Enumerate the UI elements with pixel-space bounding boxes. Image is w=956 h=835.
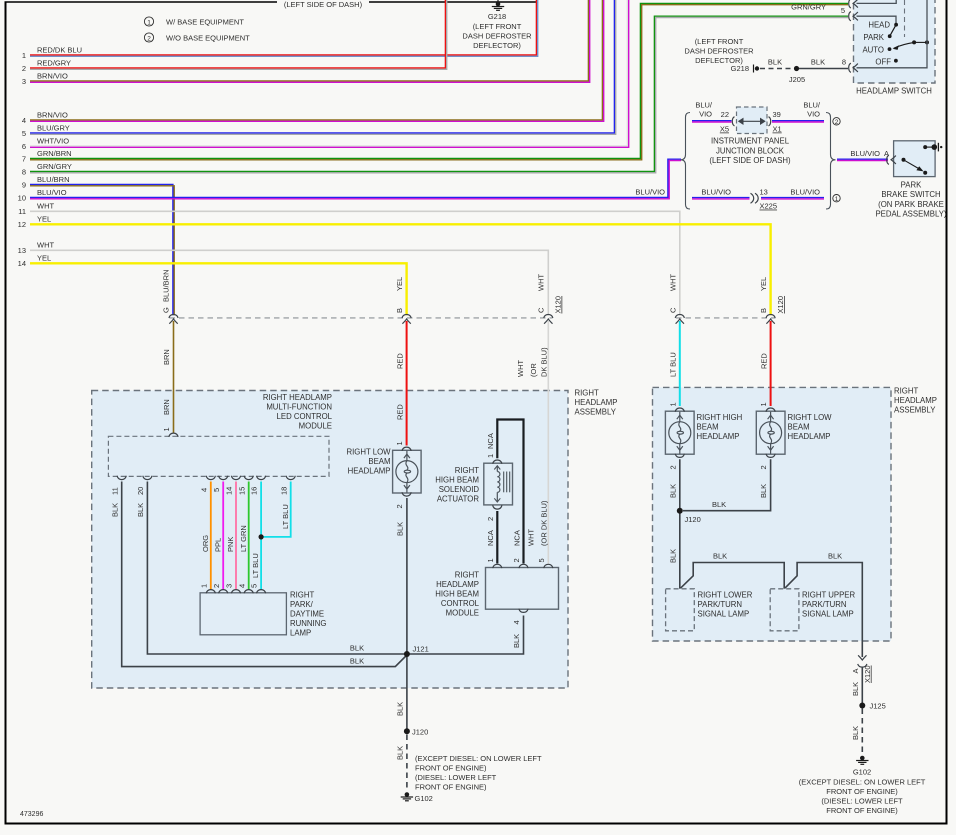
note circle 1 on bottom branch xyxy=(833,195,840,203)
svg-text:X1: X1 xyxy=(773,125,782,134)
connector X1 out of junction block xyxy=(769,110,782,134)
park brake switch box xyxy=(875,141,946,219)
svg-text:1: 1 xyxy=(486,558,495,562)
splice J121 xyxy=(404,645,429,658)
svg-text:RED: RED xyxy=(396,353,405,369)
right high beam headlamp box xyxy=(665,411,742,454)
cropped component bottom edge (left side of dash box) xyxy=(5,0,538,8)
svg-text:1: 1 xyxy=(668,402,677,406)
legend note 2: W/O BASE EQUIPMENT xyxy=(144,33,250,43)
svg-text:BLK: BLK xyxy=(759,484,768,498)
control module pin 1 xyxy=(486,558,502,568)
svg-text:6: 6 xyxy=(22,142,26,151)
connector X120 left (dashed boundary) xyxy=(170,296,563,318)
svg-text:RIGHT: RIGHT xyxy=(894,387,918,396)
junction block internal dashed box with bus bar xyxy=(737,107,768,134)
svg-text:YEL: YEL xyxy=(37,254,51,263)
svg-text:C: C xyxy=(537,307,546,313)
svg-text:HIGH BEAM: HIGH BEAM xyxy=(435,476,479,485)
svg-text:BEAM: BEAM xyxy=(368,457,390,466)
headlamp switch pin 5 internal line to HEAD contact xyxy=(857,16,897,24)
svg-text:5: 5 xyxy=(841,6,845,15)
svg-text:BLU/VIO: BLU/VIO xyxy=(635,188,665,197)
svg-text:BLU/: BLU/ xyxy=(803,101,821,110)
wire LT GRN pin 15 to lamp pin 4 xyxy=(239,482,249,590)
wire BLK dashed J125 to ground G102 (right) xyxy=(851,709,863,756)
svg-text:BRN/VIO: BRN/VIO xyxy=(37,72,68,81)
svg-text:NCA: NCA xyxy=(486,530,495,546)
svg-text:9: 9 xyxy=(22,181,26,190)
svg-text:BLK: BLK xyxy=(350,644,364,653)
ground G102 (left) xyxy=(401,754,542,803)
svg-text:A: A xyxy=(851,668,860,673)
svg-text:BLK: BLK xyxy=(396,702,405,716)
X120 pin B connector (left) xyxy=(395,277,411,324)
svg-text:BLU/BRN: BLU/BRN xyxy=(162,269,171,302)
svg-text:5: 5 xyxy=(22,129,26,138)
wire ORG pin 4 to lamp pin 1 xyxy=(201,482,211,590)
svg-text:2: 2 xyxy=(759,465,768,469)
svg-text:1: 1 xyxy=(22,51,26,60)
wire BLU/VIO brace to X5 xyxy=(692,101,732,123)
svg-text:BLK: BLK xyxy=(350,657,364,666)
wire BLK pin 11 to J121 lower line xyxy=(110,482,407,667)
svg-text:RIGHT HEADLAMP: RIGHT HEADLAMP xyxy=(263,393,332,402)
wire BLU/VIO brace to X225 xyxy=(692,187,750,199)
svg-text:X5: X5 xyxy=(720,125,729,134)
svg-text:8: 8 xyxy=(22,168,26,177)
control module pin 4 (bottom) xyxy=(512,609,528,648)
svg-text:BLU/VIO: BLU/VIO xyxy=(790,187,820,196)
svg-text:ORG: ORG xyxy=(201,535,210,552)
wire BLK dashed G218 to J205 xyxy=(760,58,794,69)
headlamp switch top pin internal line xyxy=(857,0,897,3)
svg-text:FRONT OF ENGINE): FRONT OF ENGINE) xyxy=(415,783,487,792)
svg-text:3: 3 xyxy=(22,77,26,86)
left brace for junction block branches xyxy=(681,113,691,210)
svg-text:AUTO: AUTO xyxy=(862,46,884,55)
svg-text:RIGHT: RIGHT xyxy=(455,571,479,580)
svg-text:INSTRUMENT PANEL: INSTRUMENT PANEL xyxy=(711,137,790,146)
LED module pin 1 (top) xyxy=(162,427,178,437)
svg-text:13: 13 xyxy=(760,187,768,196)
splice J120 (right assembly) xyxy=(677,508,701,524)
wire BLK low beam pin 2 to J120 xyxy=(683,459,771,510)
wire 6 WHT/VIO xyxy=(22,0,629,151)
svg-text:HIGH BEAM: HIGH BEAM xyxy=(435,590,479,599)
note circle 2 on top branch xyxy=(833,118,840,126)
svg-text:PARK: PARK xyxy=(901,181,922,190)
svg-text:(DIESEL: LOWER LEFT: (DIESEL: LOWER LEFT xyxy=(415,773,497,782)
svg-text:GRN/BRN: GRN/BRN xyxy=(37,149,72,158)
wire BRN X120-G to LED module pin 1 xyxy=(162,321,174,433)
svg-text:X225: X225 xyxy=(760,202,778,211)
svg-text:J125: J125 xyxy=(870,702,886,711)
wire PPL pin 5 to lamp pin 2 xyxy=(213,482,223,590)
svg-text:SIGNAL LAMP: SIGNAL LAMP xyxy=(698,610,750,619)
svg-text:7: 7 xyxy=(22,155,26,164)
wire 10 BLU/VIO xyxy=(18,159,681,202)
headlamp switch top pin connector xyxy=(849,0,858,8)
svg-text:4: 4 xyxy=(512,620,521,624)
svg-text:11: 11 xyxy=(18,207,26,216)
svg-text:15: 15 xyxy=(237,487,246,495)
svg-text:4: 4 xyxy=(199,488,208,492)
svg-text:DK BLU): DK BLU) xyxy=(540,347,549,377)
PARK contact xyxy=(863,33,891,42)
svg-text:RIGHT: RIGHT xyxy=(575,389,599,398)
svg-text:BLK: BLK xyxy=(828,552,842,561)
low beam lamp pin 2 xyxy=(395,492,411,508)
X120 pin C connector (right) xyxy=(669,274,685,324)
right high beam solenoid actuator box xyxy=(484,463,513,505)
svg-text:PPL: PPL xyxy=(213,538,222,552)
svg-text:BLK: BLK xyxy=(851,726,860,740)
right headlamp assembly box (right drawing) xyxy=(653,387,937,642)
svg-text:BLK: BLK xyxy=(768,58,782,67)
svg-text:LED CONTROL: LED CONTROL xyxy=(277,412,333,421)
svg-text:LT BLU: LT BLU xyxy=(669,352,678,377)
svg-text:SIGNAL LAMP: SIGNAL LAMP xyxy=(802,610,854,619)
svg-text:(EXCEPT DIESEL: ON LOWER LEFT: (EXCEPT DIESEL: ON LOWER LEFT xyxy=(415,754,542,763)
wire BLK branch to upper park/turn lamp and ground trunk xyxy=(785,552,862,658)
svg-text:1: 1 xyxy=(395,441,404,445)
high beam lamp pin 2 xyxy=(668,454,684,470)
svg-text:BLK: BLK xyxy=(668,549,677,563)
svg-text:ASSEMBLY: ASSEMBLY xyxy=(894,406,936,415)
splice J120 (bottom left drop) xyxy=(404,728,428,737)
svg-text:PARK/TURN: PARK/TURN xyxy=(698,600,742,609)
control module pin 5 xyxy=(537,558,553,568)
svg-text:BLK: BLK xyxy=(712,500,726,509)
BLK label below J120 xyxy=(668,549,677,563)
svg-text:1: 1 xyxy=(147,19,151,26)
wire 12 YEL xyxy=(18,215,771,316)
wire BLU/VIO X1 to right brace xyxy=(772,101,824,123)
AUTO contact xyxy=(862,46,891,55)
svg-text:1: 1 xyxy=(162,427,171,431)
svg-text:2: 2 xyxy=(512,558,521,562)
svg-text:BLU/VIO: BLU/VIO xyxy=(37,188,67,197)
svg-text:3: 3 xyxy=(225,584,234,588)
svg-text:WHT: WHT xyxy=(516,360,525,377)
svg-text:VIO: VIO xyxy=(807,110,820,119)
svg-text:39: 39 xyxy=(773,110,781,119)
label GRN/GRY pin 5 xyxy=(791,3,845,16)
connector X120 right (dashed boundary) xyxy=(676,296,785,318)
wire BLU/VIO X225 to right brace xyxy=(761,187,824,199)
park lamp pin 1 xyxy=(199,584,215,594)
svg-text:(LEFT SIDE OF DASH): (LEFT SIDE OF DASH) xyxy=(709,156,791,165)
svg-text:14: 14 xyxy=(225,487,234,495)
svg-text:2: 2 xyxy=(486,517,495,521)
svg-text:FRONT OF ENGINE): FRONT OF ENGINE) xyxy=(826,787,898,796)
svg-text:16: 16 xyxy=(250,487,259,495)
svg-text:RIGHT LOW: RIGHT LOW xyxy=(346,448,391,457)
svg-text:RUNNING: RUNNING xyxy=(290,619,326,628)
splice J205 xyxy=(789,66,805,84)
svg-text:WHT: WHT xyxy=(669,274,678,291)
svg-text:(ON PARK BRAKE: (ON PARK BRAKE xyxy=(878,200,944,209)
svg-text:G218: G218 xyxy=(731,64,749,73)
wire 11 WHT xyxy=(18,202,680,316)
svg-text:PNK: PNK xyxy=(226,537,235,552)
park lamp pin 3 xyxy=(225,584,241,594)
svg-text:LT GRN: LT GRN xyxy=(239,525,248,552)
svg-text:RIGHT UPPER: RIGHT UPPER xyxy=(802,591,856,600)
wire BLK low beam pin 2 to J120 splice (left) xyxy=(396,498,407,731)
svg-text:X120: X120 xyxy=(776,296,785,314)
wire NCA solenoid pin 1 loop to control module pin 2 xyxy=(497,420,523,564)
svg-text:RED/GRY: RED/GRY xyxy=(37,59,71,68)
right lower park/turn signal lamp (dashed box) xyxy=(666,589,753,631)
svg-text:YEL: YEL xyxy=(759,277,768,291)
svg-text:NCA: NCA xyxy=(513,530,522,546)
page border right xyxy=(946,0,948,824)
svg-text:10: 10 xyxy=(18,194,26,203)
svg-text:HEAD: HEAD xyxy=(868,20,890,29)
LED module pin 5 (bottom) xyxy=(212,476,228,492)
svg-text:RIGHT LOWER: RIGHT LOWER xyxy=(698,591,753,600)
LED module pin 20 (bottom) xyxy=(136,476,152,495)
svg-text:(EXCEPT DIESEL: ON LOWER LEFT: (EXCEPT DIESEL: ON LOWER LEFT xyxy=(799,778,926,787)
svg-text:RED: RED xyxy=(396,404,405,420)
svg-text:5: 5 xyxy=(212,488,221,492)
svg-text:2: 2 xyxy=(395,504,404,508)
svg-text:11: 11 xyxy=(110,487,119,495)
LED module pin 18 (bottom) xyxy=(279,476,295,495)
wire 13 WHT xyxy=(18,241,549,316)
LED control module label xyxy=(263,393,333,431)
park lamp pin 5 xyxy=(250,584,266,594)
svg-text:2: 2 xyxy=(147,35,151,42)
headlamp switch pin 5 connector xyxy=(849,12,858,21)
svg-text:OFF: OFF xyxy=(875,57,891,66)
wire 5 BLU/GRY xyxy=(22,0,616,138)
svg-text:SOLENOID: SOLENOID xyxy=(439,485,480,494)
svg-text:BLK: BLK xyxy=(110,503,119,517)
splice dot pins 16/18 xyxy=(259,534,264,539)
wire LT BLU X120-C to high beam headlamp xyxy=(669,321,680,406)
svg-text:RIGHT: RIGHT xyxy=(290,591,314,600)
svg-text:W/ BASE EQUIPMENT: W/ BASE EQUIPMENT xyxy=(166,18,244,27)
svg-text:BRAKE SWITCH: BRAKE SWITCH xyxy=(881,190,940,199)
svg-text:BLK: BLK xyxy=(713,552,727,561)
svg-text:22: 22 xyxy=(721,110,729,119)
svg-text:RED: RED xyxy=(760,353,769,369)
svg-text:(LEFT SIDE OF DASH): (LEFT SIDE OF DASH) xyxy=(284,0,363,9)
wire BLK J205 to headlamp switch pin 8 xyxy=(799,58,848,69)
svg-text:(LEFT FRONT: (LEFT FRONT xyxy=(473,22,522,31)
right headlamp high beam control module box xyxy=(486,568,559,610)
svg-text:YEL: YEL xyxy=(395,277,404,291)
solenoid pin 2 (bottom) xyxy=(486,505,502,546)
low beam lamp pin 1 (right assembly) xyxy=(759,402,775,411)
svg-text:BLK: BLK xyxy=(811,58,825,67)
svg-text:HEADLAMP: HEADLAMP xyxy=(697,432,740,441)
svg-text:MODULE: MODULE xyxy=(446,609,479,618)
svg-text:BLK: BLK xyxy=(136,503,145,517)
wire 14 YEL xyxy=(18,254,407,316)
svg-text:A: A xyxy=(884,149,889,158)
svg-text:2: 2 xyxy=(668,465,677,469)
svg-text:BLU/GRY: BLU/GRY xyxy=(37,124,70,133)
svg-text:1: 1 xyxy=(199,584,208,588)
svg-text:J205: J205 xyxy=(789,75,805,84)
svg-text:J120: J120 xyxy=(685,515,701,524)
LED module pin 4 (bottom) xyxy=(199,476,215,492)
wire PNK pin 14 to lamp pin 3 xyxy=(226,482,236,590)
svg-text:2: 2 xyxy=(212,584,221,588)
wire BLU/VIO to park brake switch xyxy=(837,149,889,161)
LED module pin 11 (bottom) xyxy=(110,476,126,495)
wire 2 RED/GRY xyxy=(22,0,447,73)
svg-text:ASSEMBLY: ASSEMBLY xyxy=(575,408,617,417)
svg-text:BLK: BLK xyxy=(396,746,405,760)
svg-text:PEDAL ASSEMBLY): PEDAL ASSEMBLY) xyxy=(875,210,946,219)
right upper park/turn signal lamp (dashed box) xyxy=(770,589,855,631)
LED module pin 14 (bottom) xyxy=(225,476,241,495)
svg-text:(DIESEL: LOWER LEFT: (DIESEL: LOWER LEFT xyxy=(821,797,903,806)
svg-text:YEL: YEL xyxy=(37,215,51,224)
svg-text:GRN/GRY: GRN/GRY xyxy=(791,3,826,12)
X120 pin C connector (left) xyxy=(537,274,553,324)
svg-text:FRONT OF ENGINE): FRONT OF ENGINE) xyxy=(826,806,898,815)
svg-text:CONTROL: CONTROL xyxy=(441,599,480,608)
headlamp switch feed line up from wiper xyxy=(926,0,928,42)
svg-text:G102: G102 xyxy=(853,768,871,777)
control module pin 2 xyxy=(512,558,528,568)
svg-text:PARK: PARK xyxy=(863,33,884,42)
wire BLK pin 20 to J121 and control module pin 4 xyxy=(136,482,524,655)
svg-text:X120: X120 xyxy=(554,296,563,314)
right headlamp high beam control module label xyxy=(435,571,479,618)
svg-text:RED/DK BLU: RED/DK BLU xyxy=(37,46,82,55)
label (LEFT SIDE OF DASH) xyxy=(284,0,363,9)
wire RED X120-B to low beam headlamp (right) xyxy=(760,321,771,406)
svg-text:B: B xyxy=(759,308,768,313)
svg-text:BEAM: BEAM xyxy=(697,423,719,432)
svg-text:20: 20 xyxy=(136,487,145,495)
wire RED X120-B to low beam headlamp xyxy=(396,321,407,446)
low beam lamp pin 2 (right assembly) xyxy=(759,454,775,470)
BLK label above J120 xyxy=(396,702,405,716)
svg-text:BLU/VIO: BLU/VIO xyxy=(701,187,731,196)
svg-text:MULTI-FUNCTION: MULTI-FUNCTION xyxy=(266,403,332,412)
wire LT BLU pin 18 joining pin 16 wire xyxy=(263,482,291,537)
svg-text:FRONT OF ENGINE): FRONT OF ENGINE) xyxy=(415,764,487,773)
svg-text:12: 12 xyxy=(18,220,26,229)
svg-text:MODULE: MODULE xyxy=(299,422,332,431)
svg-text:BLU/BRN: BLU/BRN xyxy=(37,175,70,184)
svg-text:DASH DEFROSTER: DASH DEFROSTER xyxy=(684,47,754,56)
park brake switch pin A connector xyxy=(887,155,896,164)
headlamp switch pin 8 internal line xyxy=(857,42,928,67)
svg-text:LAMP: LAMP xyxy=(290,629,311,638)
legend note 1: W/ BASE EQUIPMENT xyxy=(144,17,244,27)
HEAD contact xyxy=(868,20,898,29)
drawing number 473296 xyxy=(20,811,43,818)
defroster deflector text (second) xyxy=(684,37,754,65)
headlamp switch pin 8 connector xyxy=(849,63,858,72)
LED module pin 16 (bottom) xyxy=(250,476,266,495)
svg-text:473296: 473296 xyxy=(20,811,43,818)
svg-text:W/O BASE EQUIPMENT: W/O BASE EQUIPMENT xyxy=(166,34,250,43)
svg-text:B: B xyxy=(395,308,404,313)
svg-text:DAYTIME: DAYTIME xyxy=(290,610,324,619)
right headlamp assembly box (left drawing) xyxy=(92,389,618,689)
low beam lamp pin 1 xyxy=(395,441,411,451)
solenoid pin 1 (top) xyxy=(486,433,502,464)
wire BLK dashed J120 to ground G102 (left) xyxy=(396,735,407,792)
wire 3 BRN/VIO xyxy=(22,0,590,86)
wire WHT (OR DK BLU) X120-C to control module pin 5 xyxy=(516,321,549,564)
X120 pin B connector (right) xyxy=(759,277,775,324)
svg-text:LT BLU: LT BLU xyxy=(281,504,290,529)
svg-text:ACTUATOR: ACTUATOR xyxy=(437,495,480,504)
svg-text:WHT: WHT xyxy=(527,529,536,546)
wire LT BLU pin 16 to lamp pin 5 xyxy=(251,482,261,590)
instrument panel junction block label xyxy=(709,137,791,166)
svg-text:RIGHT HIGH: RIGHT HIGH xyxy=(697,413,743,422)
park lamp pin 4 xyxy=(237,584,253,594)
svg-text:(OR: (OR xyxy=(529,363,538,377)
svg-text:J120: J120 xyxy=(412,728,428,737)
right high beam solenoid actuator label xyxy=(435,466,479,504)
right low beam headlamp label (left assembly) xyxy=(346,448,391,476)
svg-text:5: 5 xyxy=(250,584,259,588)
svg-text:BLK: BLK xyxy=(396,522,405,536)
svg-text:BLK: BLK xyxy=(851,682,860,696)
svg-text:G102: G102 xyxy=(415,794,433,803)
svg-text:HEADLAMP: HEADLAMP xyxy=(894,396,937,405)
svg-text:BRN/VIO: BRN/VIO xyxy=(37,111,68,120)
svg-text:G218: G218 xyxy=(488,12,506,21)
svg-text:18: 18 xyxy=(279,487,288,495)
svg-text:J121: J121 xyxy=(413,645,429,654)
svg-text:BLK: BLK xyxy=(512,634,521,648)
wire 4 BRN/VIO xyxy=(22,0,604,125)
ground G102 (right) xyxy=(799,756,926,815)
svg-text:HEADLAMP SWITCH: HEADLAMP SWITCH xyxy=(856,87,932,96)
park lamp pin 2 xyxy=(212,584,228,594)
park brake switch internals xyxy=(902,143,943,175)
wire 9 BLU/BRN xyxy=(22,175,174,315)
right park/daytime running lamp box xyxy=(200,591,326,638)
connector X225 xyxy=(751,187,778,210)
svg-text:8: 8 xyxy=(842,58,846,67)
LED module pin 15 (bottom) xyxy=(237,476,253,495)
svg-text:G: G xyxy=(162,307,171,313)
svg-text:1: 1 xyxy=(835,196,839,203)
svg-text:WHT: WHT xyxy=(37,241,54,250)
svg-text:C: C xyxy=(669,307,678,313)
page border bottom xyxy=(5,823,948,825)
svg-text:LT BLU: LT BLU xyxy=(251,553,260,578)
svg-text:4: 4 xyxy=(237,584,246,588)
svg-text:BLU/: BLU/ xyxy=(695,101,713,110)
svg-text:DEFLECTOR): DEFLECTOR) xyxy=(473,41,521,50)
wire BLK high beam pin 2 down into lower lamp xyxy=(668,459,679,589)
wire BLK X120-A to J125 xyxy=(851,668,863,706)
svg-text:HEADLAMP: HEADLAMP xyxy=(788,432,831,441)
svg-text:14: 14 xyxy=(18,259,26,268)
svg-text:HEADLAMP: HEADLAMP xyxy=(436,580,479,589)
wire 10 BLU/VIO label near turn xyxy=(635,188,665,197)
svg-text:RIGHT: RIGHT xyxy=(455,466,479,475)
svg-text:HEADLAMP: HEADLAMP xyxy=(348,467,391,476)
X120 pin G connector xyxy=(162,269,179,323)
